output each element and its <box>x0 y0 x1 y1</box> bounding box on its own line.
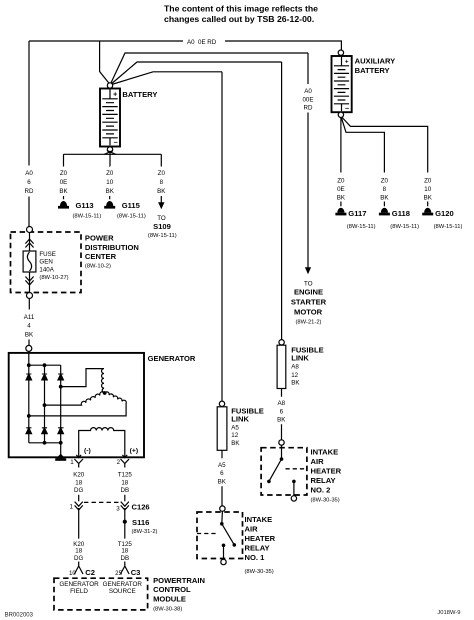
svg-text:CENTER: CENTER <box>85 252 117 261</box>
powertrain control module box <box>54 578 148 610</box>
svg-text:6: 6 <box>27 179 31 186</box>
svg-text:BR002003: BR002003 <box>5 612 34 618</box>
label K20 18 DG lower <box>73 541 85 562</box>
fusible link A5 terminal <box>219 401 224 406</box>
svg-text:INTAKE: INTAKE <box>245 515 273 524</box>
diode D5 <box>42 428 48 434</box>
PDC bottom terminal <box>27 293 33 299</box>
node bottom bus col3 <box>59 441 63 445</box>
label GENERATOR SOURCE <box>103 581 143 595</box>
node phase A tap <box>59 385 63 389</box>
generator rectifier bottom bus <box>29 442 61 444</box>
connector C126 chevron pin 1 <box>75 502 83 539</box>
svg-text:(8W-21-2): (8W-21-2) <box>296 320 322 326</box>
wire aux negative to G118 <box>341 117 384 206</box>
svg-text:SOURCE: SOURCE <box>109 588 136 595</box>
svg-text:GENERATOR: GENERATOR <box>103 581 143 588</box>
intake air heater relay no. 1 box <box>197 512 243 559</box>
svg-text:BK: BK <box>157 188 166 195</box>
wire Z0 to G115 <box>109 166 111 199</box>
svg-text:(8W-10-27): (8W-10-27) <box>39 275 68 281</box>
label Z0 8 BK (G118) <box>380 177 389 201</box>
label A0 00E RD <box>302 88 313 112</box>
svg-text:changes called out by TSB 26-1: changes called out by TSB 26-12-00. <box>164 14 314 24</box>
generator box <box>9 353 144 457</box>
svg-text:A0: A0 <box>25 170 33 177</box>
svg-text:DG: DG <box>74 555 83 562</box>
label POWERTRAIN CONTROL MODULE <box>153 576 205 613</box>
node phase B tap <box>43 403 47 407</box>
svg-text:G118: G118 <box>392 209 410 218</box>
diode D1 <box>26 374 32 380</box>
label Z0 8 BK (S109) <box>157 170 166 195</box>
svg-text:(8W-30-35): (8W-30-35) <box>311 498 340 504</box>
relay 1 output terminal <box>221 559 226 564</box>
svg-text:MOTOR: MOTOR <box>294 307 323 316</box>
aux battery bottom terminal <box>338 112 343 117</box>
connector C126 dashed line <box>84 501 120 503</box>
svg-text:(8W-30-35): (8W-30-35) <box>245 569 274 575</box>
svg-text:FIELD: FIELD <box>70 588 88 595</box>
svg-text:140A: 140A <box>39 266 54 273</box>
svg-text:G113: G113 <box>76 201 94 210</box>
svg-text:A0 0E RD: A0 0E RD <box>187 39 217 46</box>
relay 1 input terminal <box>220 506 225 511</box>
svg-text:BK: BK <box>291 380 300 387</box>
svg-text:A8: A8 <box>278 400 286 407</box>
svg-text:+: + <box>113 91 117 98</box>
svg-text:CONTROL: CONTROL <box>153 585 191 594</box>
svg-text:The content of this image refl: The content of this image reflects the <box>164 4 318 14</box>
wire A11 to generator <box>28 299 30 346</box>
svg-text:INTAKE: INTAKE <box>311 448 339 457</box>
label INTAKE AIR HEATER RELAY NO. 2 <box>311 448 342 504</box>
wire battery fan to left bus <box>100 41 110 85</box>
wire battery fan to fusible link A8 <box>110 62 282 85</box>
svg-text:DB: DB <box>120 555 129 562</box>
svg-text:6: 6 <box>220 470 224 477</box>
svg-text:Z0: Z0 <box>381 177 389 184</box>
svg-text:A8: A8 <box>291 364 299 371</box>
svg-text:RELAY: RELAY <box>311 476 336 485</box>
svg-text:DISTRIBUTION: DISTRIBUTION <box>85 243 139 252</box>
svg-text:–: – <box>345 104 349 113</box>
arrow to engine starter motor <box>305 267 311 274</box>
svg-text:RELAY: RELAY <box>245 543 270 552</box>
svg-text:0E: 0E <box>337 186 345 193</box>
svg-text:GEN: GEN <box>39 259 52 266</box>
node stator center <box>103 391 107 395</box>
svg-text:S116: S116 <box>132 518 149 527</box>
svg-text:(8W-15-11): (8W-15-11) <box>347 224 376 230</box>
svg-text:GENERATOR: GENERATOR <box>148 354 196 363</box>
battery bottom terminal <box>107 147 112 152</box>
label INTAKE AIR HEATER RELAY NO. 1 <box>245 515 276 575</box>
aux battery top terminal <box>338 50 343 55</box>
svg-text:1: 1 <box>69 504 73 511</box>
fusible link A5 body <box>217 407 227 451</box>
label A5 6 BK <box>218 462 227 485</box>
battery plates <box>109 90 111 99</box>
label K20 18 DG upper <box>73 472 85 495</box>
svg-text:10: 10 <box>424 186 431 193</box>
svg-text:G117: G117 <box>348 209 366 218</box>
svg-text:BK: BK <box>231 440 240 447</box>
relay 2 output terminal <box>291 496 296 501</box>
svg-text:BK: BK <box>424 195 433 202</box>
svg-text:C3: C3 <box>131 568 141 577</box>
label POWER DISTRIBUTION CENTER <box>85 234 139 270</box>
svg-text:(-): (-) <box>84 447 91 454</box>
wire diode column 2 <box>44 365 46 443</box>
svg-text:T125: T125 <box>118 472 133 479</box>
svg-text:8: 8 <box>383 186 387 193</box>
connector chevrons out of PDC <box>25 272 33 293</box>
label A0 6 RD <box>25 170 34 195</box>
generator case ground <box>55 454 66 461</box>
svg-text:AUXILIARY: AUXILIARY <box>355 57 396 66</box>
label Z0 10 BK (G115) <box>106 170 115 195</box>
label FUSE GEN 140A <box>39 251 68 281</box>
svg-text:S109: S109 <box>153 222 171 231</box>
relay 1 switch <box>197 511 236 559</box>
battery top terminal <box>107 83 112 88</box>
svg-text:–: – <box>114 137 118 146</box>
label T125 18 DB lower <box>118 541 133 562</box>
svg-text:(8W-30-38): (8W-30-38) <box>153 606 182 612</box>
svg-text:C2: C2 <box>85 568 95 577</box>
svg-text:LINK: LINK <box>291 354 309 363</box>
svg-text:BATTERY: BATTERY <box>122 90 157 99</box>
svg-text:K20: K20 <box>73 472 85 479</box>
wire aux negative to G120 <box>342 117 428 206</box>
svg-text:(8W-31-2): (8W-31-2) <box>132 529 158 535</box>
svg-text:AIR: AIR <box>245 524 259 533</box>
svg-text:G115: G115 <box>122 201 141 210</box>
node phase C tap <box>27 414 31 418</box>
svg-text:NO. 1: NO. 1 <box>245 553 266 562</box>
fuse GEN 140A <box>23 251 36 272</box>
wire battery negative X junction and bus <box>64 153 162 155</box>
svg-text:3: 3 <box>116 505 120 512</box>
svg-text:(8W-15-11): (8W-15-11) <box>148 233 177 239</box>
splice S116 <box>123 520 127 524</box>
wire K20 to C126 <box>78 495 80 502</box>
node bottom bus col2 <box>43 441 47 445</box>
label TO S109 <box>148 215 177 239</box>
ground G118 <box>379 208 390 216</box>
svg-text:BK: BK <box>380 195 389 202</box>
svg-text:Z0: Z0 <box>60 170 68 177</box>
svg-text:(8W-15-11): (8W-15-11) <box>117 213 146 219</box>
label AUXILIARY BATTERY <box>355 57 396 75</box>
ground G113 <box>58 201 69 209</box>
PDC top terminal <box>27 227 33 233</box>
svg-text:HEATER: HEATER <box>311 467 342 476</box>
wire A0 00E RD to starter <box>307 53 309 268</box>
wire diode column 3 <box>60 365 62 457</box>
svg-text:BK: BK <box>106 188 115 195</box>
generator input terminal <box>26 345 32 351</box>
svg-text:BATTERY: BATTERY <box>355 66 390 75</box>
connector C126 chevron pin 3 <box>121 502 129 539</box>
svg-text:A0: A0 <box>304 88 312 95</box>
svg-text:Z0: Z0 <box>106 170 114 177</box>
pin 2 generator <box>121 455 130 468</box>
svg-text:12: 12 <box>291 372 298 379</box>
ground G115 <box>104 201 115 209</box>
svg-text:A11: A11 <box>24 314 35 321</box>
label A8 6 BK <box>277 400 286 423</box>
pin 10 C2 PCM <box>74 562 83 575</box>
svg-text:8: 8 <box>160 179 164 186</box>
svg-text:Z0: Z0 <box>158 170 166 177</box>
svg-text:BK: BK <box>59 188 68 195</box>
svg-text:J018W-9: J018W-9 <box>437 610 460 616</box>
wire A0 top bus <box>29 40 183 42</box>
diode D2 <box>42 374 48 380</box>
svg-text:(8W-15-11): (8W-15-11) <box>73 213 102 219</box>
svg-text:GENERATOR: GENERATOR <box>59 581 99 588</box>
svg-text:ENGINE: ENGINE <box>294 287 323 296</box>
label Z0 0E BK (G113) <box>59 170 68 195</box>
svg-text:18: 18 <box>75 479 82 486</box>
svg-text:2: 2 <box>117 459 121 466</box>
svg-text:POWERTRAIN: POWERTRAIN <box>153 576 205 585</box>
svg-text:STARTER: STARTER <box>291 298 327 307</box>
wire Z0 to G113 <box>63 154 65 199</box>
diode D4 <box>26 428 32 434</box>
diode D6 <box>58 428 64 434</box>
svg-text:DG: DG <box>74 487 83 494</box>
svg-text:BK: BK <box>277 416 286 423</box>
field winding L1 <box>79 428 125 456</box>
svg-text:(+): (+) <box>130 447 139 454</box>
svg-text:A5: A5 <box>231 424 239 431</box>
svg-text:(8W-15-11): (8W-15-11) <box>434 224 463 230</box>
label A11 4 BK <box>24 314 35 339</box>
battery B1 <box>100 83 120 152</box>
svg-text:MODULE: MODULE <box>153 595 186 604</box>
wire A0 top bus right segment to auxiliary battery <box>225 41 341 50</box>
wire to fusible link A8 <box>281 62 283 340</box>
generator rectifier top bus <box>29 364 61 366</box>
svg-text:10: 10 <box>69 570 76 577</box>
svg-text:HEATER: HEATER <box>245 534 276 543</box>
svg-text:4: 4 <box>27 323 31 330</box>
relay 2 switch <box>267 445 307 496</box>
svg-text:RD: RD <box>25 188 34 195</box>
wire A8 6 BK <box>281 389 283 440</box>
label Z0 10 BK (G120) <box>424 177 433 201</box>
wire T125 to C126 <box>124 495 126 502</box>
fusible link A8 body <box>277 345 286 388</box>
svg-text:10: 10 <box>106 179 113 186</box>
fusible link A8 terminal <box>279 340 284 345</box>
svg-text:+: + <box>345 58 349 65</box>
svg-text:6: 6 <box>280 409 284 416</box>
svg-text:DB: DB <box>120 487 129 494</box>
label Z0 0E BK (G117) <box>337 177 346 201</box>
svg-text:18: 18 <box>121 548 128 555</box>
ground G117 <box>335 208 346 216</box>
svg-text:G120: G120 <box>435 209 454 218</box>
svg-text:18: 18 <box>75 548 82 555</box>
ground G120 <box>422 208 433 216</box>
relay 2 input terminal <box>279 440 284 445</box>
wire A5 6 BK <box>221 450 223 506</box>
wire to fusible link A5 <box>221 72 223 401</box>
svg-text:25: 25 <box>115 570 122 577</box>
svg-text:BK: BK <box>25 331 34 338</box>
svg-text:(8W-15-11): (8W-15-11) <box>390 224 419 230</box>
wire Z0 to S109 <box>160 154 162 202</box>
svg-text:BK: BK <box>337 195 346 202</box>
label FUSIBLE LINK A5 12 BK <box>231 406 263 447</box>
svg-text:1: 1 <box>70 459 74 466</box>
power distribution center box <box>11 232 82 293</box>
svg-text:BK: BK <box>218 478 227 485</box>
label GENERATOR FIELD <box>59 581 99 595</box>
svg-text:NO. 2: NO. 2 <box>311 486 331 495</box>
aux battery plates <box>341 57 343 66</box>
arrow to S109 <box>158 202 164 209</box>
intake air heater relay no. 2 box <box>261 448 307 495</box>
title note text <box>164 4 318 24</box>
node top bus col1 <box>27 363 31 367</box>
battery case <box>100 89 120 147</box>
stator winding phase B <box>45 392 105 405</box>
svg-text:LINK: LINK <box>231 415 249 424</box>
svg-text:0E: 0E <box>60 179 68 186</box>
svg-text:TO: TO <box>157 215 166 222</box>
svg-text:AIR: AIR <box>311 457 325 466</box>
node top bus col2 <box>43 363 47 367</box>
aux battery case <box>332 56 352 112</box>
wire battery fan to starter feed <box>110 53 308 85</box>
label TO ENGINE STARTER MOTOR <box>291 280 327 325</box>
svg-text:C126: C126 <box>132 502 150 511</box>
pin 25 C3 PCM <box>121 562 130 575</box>
wire diode column 1 <box>28 365 30 443</box>
label T125 18 DB upper <box>118 472 133 495</box>
diode D3 <box>58 374 64 380</box>
svg-text:Z0: Z0 <box>424 177 432 184</box>
wire aux negative to G117 <box>340 118 342 207</box>
svg-text:18: 18 <box>121 479 128 486</box>
stator winding phase C <box>29 392 126 416</box>
svg-text:POWER: POWER <box>85 234 114 243</box>
wire A0 left drop to PDC <box>28 41 30 166</box>
auxiliary battery B2 <box>332 50 352 118</box>
svg-text:Z0: Z0 <box>337 177 345 184</box>
svg-text:FUSE: FUSE <box>39 251 56 258</box>
svg-text:A5: A5 <box>218 462 226 469</box>
wire battery fan to fusible link A5 <box>110 72 222 85</box>
svg-text:12: 12 <box>231 432 238 439</box>
pin 1 generator <box>74 455 83 468</box>
connector chevrons into PDC <box>25 233 33 252</box>
svg-text:RD: RD <box>304 105 313 112</box>
svg-text:(8W-10-2): (8W-10-2) <box>85 263 111 269</box>
stator winding phase A <box>61 369 105 393</box>
label FUSIBLE LINK A8 12 BK <box>291 345 324 386</box>
svg-text:00E: 00E <box>302 96 313 103</box>
